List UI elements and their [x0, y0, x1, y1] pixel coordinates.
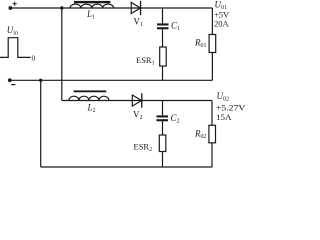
node junction at (40.7,80.3): [39, 79, 42, 82]
diode V1 triangle: [131, 2, 140, 13]
wire ESR2 to rail D: [162, 152, 164, 168]
wire C2 to ESR2: [162, 121, 164, 135]
svg-text:L1: L1: [86, 9, 95, 21]
plus sign at input: [13, 2, 17, 6]
wire middle rail C: [62, 100, 212, 102]
node junction at (61.8,8): [60, 6, 63, 9]
node minus terminal: [8, 78, 12, 82]
minus sign at input: [11, 84, 15, 86]
wire bottom rail D: [41, 166, 213, 168]
inductor L2 core bar: [74, 90, 107, 92]
diode V1 cathode bar: [140, 1, 142, 15]
capacitor C1 branch wire upper: [162, 8, 164, 23]
svg-text:ESR1: ESR1: [136, 55, 155, 67]
svg-text:20A: 20A: [214, 19, 230, 29]
wire vertical x=212.4 (R01 branch right side): [211, 8, 213, 80]
diode V2 triangle: [132, 95, 141, 106]
resistor ESR2: [159, 135, 166, 152]
capacitor C2 branch wire upper: [162, 101, 164, 116]
svg-text:R02: R02: [194, 129, 207, 141]
inductor L2 coil: [69, 96, 109, 100]
svg-text:V1: V1: [134, 17, 144, 29]
wire vertical x=212 (R02 branch right side): [211, 101, 213, 168]
svg-text:C2: C2: [171, 113, 180, 125]
diode V2 cathode bar: [141, 93, 143, 108]
capacitor C2 plates: [157, 115, 169, 117]
svg-text:0: 0: [32, 54, 36, 63]
inductor L1 coil: [70, 4, 114, 8]
svg-text:L2: L2: [87, 103, 96, 115]
wire top rail A: [10, 7, 212, 9]
node plus terminal: [9, 6, 13, 10]
inductor L1 core bar: [74, 1, 110, 3]
svg-text:V2: V2: [133, 110, 143, 122]
svg-text:15A: 15A: [216, 112, 232, 122]
input pulse waveform Uin: [0, 38, 31, 58]
wire C1 to ESR1: [162, 29, 164, 47]
svg-text:Uin: Uin: [7, 25, 18, 37]
capacitor C1 plates: [157, 23, 169, 25]
wire ESR1 to rail B: [162, 66, 164, 80]
wire vertical x=40.7 down to rail D: [40, 80, 42, 167]
wire vertical x=61.8 from rail A to rail C (crosses rail B): [61, 8, 63, 101]
svg-text:C1: C1: [171, 21, 180, 33]
resistor R01: [209, 35, 216, 53]
resistor ESR1: [160, 47, 167, 66]
svg-text:ESR2: ESR2: [134, 142, 153, 154]
resistor R02: [209, 125, 216, 143]
wire bottom rail B: [10, 79, 213, 81]
svg-text:U02: U02: [217, 91, 230, 103]
svg-text:R01: R01: [194, 38, 207, 50]
